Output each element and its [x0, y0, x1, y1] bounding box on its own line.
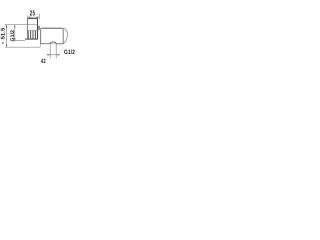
51.5 bottom extension line: [5, 46, 40, 48]
arrow 25 left: [28, 16, 31, 18]
G1/2 right brace curve: [63, 28, 68, 44]
dome outlet: [50, 42, 56, 44]
arrow 25 right: [37, 16, 40, 18]
dim line 25: [28, 16, 40, 18]
extension line 25 left: [27, 16, 29, 19]
knurl bars: [28, 31, 35, 39]
plate outline: [41, 28, 64, 44]
body line y30: [28, 29, 38, 31]
svg-text:25: 25: [30, 9, 35, 18]
arrow G12 top: [14, 25, 16, 28]
dome base line: [50, 43, 56, 45]
hose nipple side view: [39, 26, 40, 30]
body top edge: [28, 18, 38, 20]
dome left vertical / 42 extension: [49, 44, 51, 59]
51.5 dim line: [6, 25, 8, 48]
svg-text:G1/2: G1/2: [64, 49, 75, 56]
svg-text:42: 42: [41, 58, 46, 65]
body bottom edge: [25, 38, 38, 40]
extension line 25 right: [38, 14, 40, 19]
dome right vertical / 42 extension: [55, 44, 57, 59]
G1/2 left dim line: [14, 25, 16, 41]
side view body box: [28, 19, 38, 39]
arrow 51.5 top: [6, 25, 8, 28]
svg-text:51.5: 51.5: [0, 27, 6, 39]
plate bottom left segment: [41, 43, 51, 44]
arrow 42 left outside: [48, 54, 51, 56]
speck below 51.5 text: [2, 42, 4, 43]
svg-text:G1/2: G1/2: [10, 30, 16, 42]
arrow 42 right outside: [56, 54, 59, 56]
42 dim line: [47, 54, 60, 56]
body right edge thick: [37, 19, 39, 39]
51.5/G12 top extension + body line: [5, 24, 38, 26]
arrow G12 bottom: [14, 38, 16, 41]
plate corner hook to ext line: [40, 44, 41, 47]
arrow 51.5 bottom: [6, 45, 8, 48]
G12 bottom extension line: [14, 39, 26, 42]
